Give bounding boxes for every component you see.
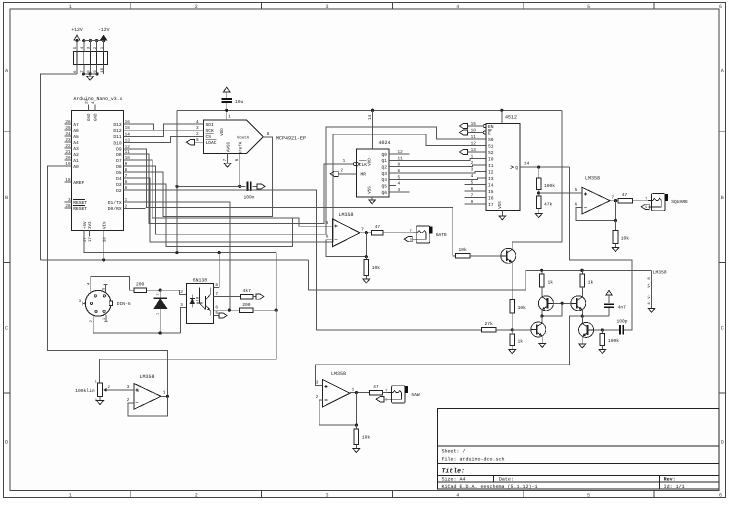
svg-text:Q0: Q0 — [381, 152, 387, 158]
svg-text:200: 200 — [136, 281, 145, 287]
svg-text:6: 6 — [235, 158, 240, 161]
ground 10k — [612, 247, 619, 251]
svg-text:T: T — [645, 197, 647, 202]
svg-text:V-: V- — [647, 294, 652, 299]
resistor 100k divider — [538, 167, 540, 178]
svg-text:-12V: -12V — [98, 27, 110, 33]
capacitor 10u — [222, 98, 232, 100]
wire D1/TX to opto out — [130, 202, 231, 310]
wire D0/RX join — [130, 207, 146, 210]
wire +12V pin6 down-left — [40, 74, 77, 260]
svg-text:D3: D3 — [116, 182, 122, 188]
wire base lower-left Q — [512, 329, 531, 331]
resistor 47 — [369, 390, 382, 395]
svg-text:7: 7 — [125, 174, 128, 179]
junction — [95, 39, 98, 42]
junction output — [365, 231, 368, 234]
svg-text:D7: D7 — [116, 158, 122, 164]
DIN pin 5 (nc) — [105, 285, 107, 293]
svg-text:15: 15 — [125, 126, 131, 131]
svg-text:28: 28 — [65, 204, 71, 209]
wire D13 to SCK — [130, 124, 154, 130]
svg-text:4k7: 4k7 — [243, 288, 252, 294]
svg-text:SAW: SAW — [411, 392, 420, 398]
svg-text:1: 1 — [343, 159, 346, 164]
wire bases pair — [553, 302, 571, 304]
resistor 10k — [456, 254, 470, 259]
wire gnd pins — [84, 73, 98, 75]
svg-text:14: 14 — [125, 132, 131, 137]
feedback wire — [326, 233, 366, 257]
wire to jack — [383, 232, 416, 234]
svg-text:14: 14 — [368, 114, 373, 120]
DIN-5 MIDI connector J2 — [85, 290, 111, 316]
DIN pin 2 — [92, 315, 94, 333]
svg-text:11: 11 — [471, 135, 477, 140]
flag S — [376, 397, 384, 402]
Q1 collector to +5v leg — [511, 242, 513, 250]
junction — [540, 269, 543, 272]
wire wiper to +in — [106, 389, 130, 391]
svg-text:100k: 100k — [544, 183, 555, 189]
+5V rail — [84, 237, 276, 253]
ground 4024 — [369, 200, 376, 204]
svg-text:I6: I6 — [488, 195, 494, 201]
4512 body — [486, 123, 520, 210]
wire Q4 to I3 — [396, 178, 486, 179]
svg-text:D13: D13 — [113, 122, 122, 128]
svg-text:13: 13 — [471, 148, 477, 153]
flag — [330, 171, 338, 176]
svg-text:2: 2 — [340, 168, 343, 173]
svg-text:I3: I3 — [488, 176, 494, 182]
svg-text:24: 24 — [65, 132, 71, 137]
svg-text:8: 8 — [267, 132, 270, 137]
-12V power flag — [100, 35, 106, 40]
svg-text:VIN: VIN — [103, 221, 108, 229]
junction — [102, 39, 105, 42]
svg-text:EN: EN — [488, 124, 494, 130]
svg-text:20: 20 — [65, 156, 71, 161]
resistor 1k right — [581, 270, 583, 274]
svg-text:2: 2 — [127, 398, 130, 403]
wire to opto pin2 — [160, 290, 186, 294]
wire DIN2 rail to opto pin3 — [93, 332, 180, 334]
junction — [355, 424, 358, 427]
svg-text:10: 10 — [471, 129, 477, 134]
svg-text:I7: I7 — [488, 202, 494, 208]
svg-text:100klin: 100klin — [75, 388, 95, 394]
svg-text:Q1: Q1 — [381, 158, 387, 164]
opto pin 6 — [214, 309, 240, 311]
junction — [371, 109, 374, 112]
resistor 10k — [365, 257, 367, 260]
svg-text:10k: 10k — [621, 236, 630, 242]
svg-text:8: 8 — [125, 168, 128, 173]
ground 1k — [509, 350, 516, 354]
wire VDD — [372, 110, 374, 149]
svg-text:S2: S2 — [488, 150, 494, 156]
wire bases to emitter node — [542, 303, 562, 316]
svg-text:RESET: RESET — [73, 206, 87, 212]
svg-text:2: 2 — [195, 493, 198, 499]
flag — [256, 294, 264, 299]
svg-text:D12: D12 — [113, 128, 122, 134]
svg-text:5: 5 — [215, 311, 218, 316]
resistor 1k left — [541, 270, 543, 274]
junction bases — [561, 302, 564, 305]
svg-text:RESET: RESET — [73, 200, 87, 206]
svg-text:GND: GND — [94, 113, 99, 121]
junction — [89, 39, 92, 42]
svg-text:LM358: LM358 — [653, 270, 667, 276]
arduino body — [71, 110, 123, 230]
resistor 1k — [510, 334, 515, 346]
flag S — [641, 204, 649, 209]
svg-text:2: 2 — [125, 204, 128, 209]
svg-text:S0: S0 — [488, 137, 494, 143]
svg-text:12: 12 — [471, 142, 477, 147]
svg-text:2: 2 — [316, 395, 319, 400]
svg-text:CLK: CLK — [359, 162, 368, 168]
ground 47k — [535, 214, 542, 218]
wiper arrow — [103, 388, 106, 392]
svg-text:Date:: Date: — [499, 477, 514, 483]
ground DAC AVSS — [224, 163, 231, 167]
svg-text:SDI: SDI — [206, 122, 215, 128]
svg-text:LM358: LM358 — [331, 371, 346, 377]
svg-text:Q: Q — [515, 165, 518, 171]
svg-text:10: 10 — [125, 156, 131, 161]
wire divider to +in — [539, 192, 578, 194]
4024 VSS — [371, 197, 373, 200]
svg-text:5: 5 — [125, 186, 128, 191]
junction — [537, 166, 540, 169]
svg-text:AVSS: AVSS — [227, 141, 232, 152]
junction — [175, 185, 178, 188]
svg-text:6: 6 — [471, 187, 474, 192]
junction — [96, 72, 99, 75]
svg-text:I1: I1 — [488, 163, 494, 169]
svg-text:D4: D4 — [116, 176, 122, 182]
svg-text:4: 4 — [456, 493, 459, 499]
transistor Q4 — [531, 322, 546, 337]
junction — [580, 269, 583, 272]
svg-text:7: 7 — [215, 292, 218, 297]
wire Q6 stub — [396, 191, 410, 193]
svg-text:4: 4 — [471, 174, 474, 179]
svg-text:VSS: VSS — [368, 186, 373, 194]
transistor Q2 — [538, 296, 553, 311]
wire D4 to 4512 S1 feeder — [130, 134, 487, 242]
svg-text:I0: I0 — [488, 156, 494, 162]
svg-text:Id: 1/1: Id: 1/1 — [664, 484, 685, 490]
svg-text:D1/TX: D1/TX — [108, 200, 122, 206]
transistor Q3 — [571, 296, 586, 311]
svg-text:17: 17 — [88, 237, 93, 242]
4512 VSS — [501, 210, 503, 215]
wire VIN pin — [103, 237, 105, 260]
wire +5V right leg — [512, 110, 562, 242]
resistor 100k — [536, 178, 541, 190]
svg-text:1: 1 — [69, 493, 72, 499]
wire to jack — [382, 392, 391, 394]
svg-text:10k: 10k — [362, 435, 371, 441]
svg-text:VoutA: VoutA — [237, 135, 250, 140]
svg-text:10k: 10k — [518, 305, 527, 311]
resistor 200 — [134, 288, 147, 293]
junction D1/TX — [228, 309, 231, 312]
flag — [460, 130, 468, 135]
opto LED — [191, 295, 193, 299]
svg-text:Arduino_Nano_v3.x: Arduino_Nano_v3.x — [74, 96, 123, 102]
flag — [219, 313, 227, 318]
svg-text:3: 3 — [325, 4, 328, 10]
ground 10k — [363, 279, 370, 283]
DAC U2 MCP4921-EP — [204, 120, 263, 153]
resistor 100k — [600, 333, 605, 345]
junction — [225, 109, 228, 112]
wire riser +5V — [176, 110, 178, 252]
VDD pin 1 — [226, 110, 228, 120]
ground header — [87, 76, 94, 80]
jack SQUARE — [652, 194, 666, 211]
svg-text:SCK: SCK — [206, 128, 215, 134]
svg-text:7: 7 — [612, 196, 615, 201]
DIN pin 3 (nc) — [83, 302, 86, 304]
svg-text:21: 21 — [65, 150, 71, 155]
wire — [84, 40, 104, 42]
svg-text:1: 1 — [156, 313, 161, 315]
jack GATE — [416, 226, 430, 243]
6N138 body — [186, 283, 213, 323]
junction output — [614, 199, 617, 202]
capacitor 4n7 — [604, 303, 614, 305]
junction — [275, 309, 278, 312]
svg-text:3: 3 — [180, 303, 183, 308]
svg-text:+5V: +5V — [83, 221, 88, 229]
svg-text:4: 4 — [398, 182, 401, 187]
4024 body — [357, 149, 390, 197]
junction divider — [537, 191, 540, 194]
flag — [186, 140, 194, 145]
junction VIN — [102, 258, 105, 261]
op-amp — [134, 383, 161, 409]
svg-text:1: 1 — [228, 115, 231, 120]
svg-text:1: 1 — [352, 387, 355, 392]
svg-text:3: 3 — [325, 493, 328, 499]
svg-text:16: 16 — [125, 120, 131, 125]
svg-text:200: 200 — [242, 302, 251, 308]
svg-text:C: C — [721, 326, 724, 332]
resistor 100k — [601, 330, 603, 333]
ground 100k — [599, 349, 606, 353]
wire Q2 to I1 — [396, 165, 486, 167]
svg-text:3: 3 — [471, 168, 474, 173]
wire Q1 to I0 — [396, 159, 486, 161]
jack SAW — [392, 386, 406, 403]
ground pot — [97, 401, 104, 405]
resistor 10k — [354, 429, 359, 445]
capacitor 100n — [247, 182, 249, 192]
wire A0 to pot buffer output — [47, 166, 167, 396]
junction +5V/VrefA riser — [175, 251, 178, 254]
svg-text:D2: D2 — [116, 188, 122, 194]
svg-text:5: 5 — [326, 221, 329, 226]
svg-text:A7: A7 — [73, 122, 79, 128]
ground Q4 — [539, 343, 546, 347]
svg-text:SQUARE: SQUARE — [671, 199, 688, 205]
wire VIN +12V line — [40, 259, 308, 261]
svg-text:100p: 100p — [616, 318, 627, 324]
resistor 10k — [510, 300, 515, 314]
svg-text:I4: I4 — [488, 182, 494, 188]
svg-text:6: 6 — [215, 306, 218, 311]
svg-text:3: 3 — [196, 126, 199, 131]
junction — [581, 315, 584, 318]
resistor 47 — [372, 230, 384, 235]
svg-text:4: 4 — [456, 4, 459, 10]
svg-text:E: E — [488, 130, 491, 136]
svg-text:3: 3 — [68, 198, 71, 203]
svg-text:S: S — [385, 397, 387, 402]
wire +12V to transistor rail — [309, 260, 652, 290]
diode D1 — [159, 290, 161, 298]
svg-text:1: 1 — [95, 379, 97, 384]
wire Q3 to I2 — [396, 172, 486, 174]
svg-text:T: T — [385, 389, 387, 394]
capacitor 100p — [602, 329, 619, 331]
svg-text:6: 6 — [326, 235, 329, 240]
opto pin 7 — [214, 296, 241, 298]
AVSS pin 7 — [227, 154, 229, 164]
svg-text:Q3: Q3 — [381, 171, 387, 177]
svg-text:5: 5 — [471, 181, 474, 186]
svg-text:10k: 10k — [372, 265, 381, 271]
op-amp — [582, 187, 610, 214]
svg-text:47: 47 — [622, 192, 628, 198]
svg-text:7: 7 — [361, 228, 364, 233]
svg-text:Q2: Q2 — [381, 164, 387, 170]
svg-text:4: 4 — [196, 120, 199, 125]
wire D3 into bus — [130, 184, 293, 246]
feedback wire — [128, 396, 167, 416]
capacitor 100p — [619, 325, 621, 335]
svg-text:2: 2 — [180, 290, 183, 295]
svg-text:+12V: +12V — [71, 27, 83, 33]
svg-text:100n: 100n — [243, 195, 254, 201]
wire Q0 stub — [396, 153, 410, 155]
svg-text:10k: 10k — [459, 247, 468, 253]
wire +5V down — [275, 253, 277, 311]
junction VrefA — [238, 185, 241, 188]
svg-text:Size: A4: Size: A4 — [442, 477, 466, 483]
junction — [540, 315, 543, 318]
junction — [75, 39, 78, 42]
svg-text:D: D — [5, 440, 8, 446]
resistor 10k — [613, 230, 618, 243]
svg-text:6: 6 — [575, 203, 578, 208]
junction +5V to opto VCC — [218, 251, 221, 254]
svg-text:3V3: 3V3 — [88, 221, 93, 229]
svg-text:1: 1 — [125, 198, 128, 203]
wire to opto pin8 — [218, 253, 220, 288]
VrefA pin 6 — [239, 154, 241, 187]
wire D8 to 4024 CLK — [130, 154, 349, 223]
resistor 10k to gnd — [615, 221, 617, 231]
svg-text:D10: D10 — [113, 140, 122, 146]
Q2 emitter/collector pins — [541, 310, 543, 317]
svg-text:1k: 1k — [588, 280, 594, 286]
svg-text:VDD: VDD — [220, 128, 225, 136]
svg-text:MR: MR — [361, 172, 367, 178]
flag — [257, 184, 265, 189]
junction — [82, 39, 85, 42]
ground Q5 — [579, 344, 586, 348]
opto pin 5 — [214, 315, 220, 317]
resistor 1k — [540, 274, 545, 287]
wire Q to divider and saw line — [528, 166, 569, 168]
resistor 47k — [536, 196, 541, 209]
svg-text:3: 3 — [127, 385, 130, 390]
svg-text:5: 5 — [196, 138, 199, 143]
svg-text:A4: A4 — [73, 140, 79, 146]
svg-text:A0: A0 — [73, 164, 79, 170]
junction — [365, 255, 368, 258]
svg-text:D6: D6 — [116, 164, 122, 170]
op-amp — [323, 380, 350, 407]
wire Q to 100p — [569, 167, 632, 330]
svg-text:13: 13 — [125, 139, 131, 144]
wire D7 to gate buffer — [130, 160, 330, 226]
potentiometer 100klin — [98, 383, 103, 397]
svg-text:Q5: Q5 — [381, 183, 387, 189]
svg-text:9: 9 — [471, 200, 474, 205]
svg-text:D8: D8 — [116, 152, 122, 158]
svg-text:VSS: VSS — [498, 201, 503, 209]
svg-text:10: 10 — [100, 67, 105, 72]
opto detector/darlington — [199, 287, 201, 303]
svg-text:D: D — [721, 440, 724, 446]
resistor 200 — [240, 308, 254, 313]
svg-text:LDAC: LDAC — [206, 140, 217, 146]
svg-text:5: 5 — [587, 493, 590, 499]
wire D2 to 27k — [130, 190, 482, 330]
wire +5V to pot — [100, 310, 277, 383]
wire VoutA to D5 — [130, 137, 273, 217]
wire +5V top rail — [177, 109, 562, 111]
header body — [74, 51, 108, 64]
svg-text:D9: D9 — [116, 147, 122, 153]
svg-text:T: T — [410, 229, 412, 234]
junction — [159, 331, 162, 334]
svg-text:A1: A1 — [73, 158, 79, 164]
junction feedback — [614, 219, 617, 222]
resistor 10k — [355, 425, 357, 429]
svg-text:B: B — [5, 195, 8, 201]
svg-text:File: arduino-dco.sch: File: arduino-dco.sch — [442, 457, 505, 463]
svg-text:7: 7 — [223, 158, 228, 161]
wire 4n7 to node — [582, 315, 609, 317]
flag — [460, 123, 468, 128]
resistor 1k to gnd — [511, 330, 513, 334]
4024 CLK pin 1 — [353, 163, 356, 166]
DIN pin 1 (nc) — [105, 315, 107, 322]
wire D10 to CS — [130, 136, 195, 142]
svg-text:Rev:: Rev: — [664, 477, 676, 483]
flag S — [404, 237, 412, 242]
svg-text:7: 7 — [471, 194, 474, 199]
